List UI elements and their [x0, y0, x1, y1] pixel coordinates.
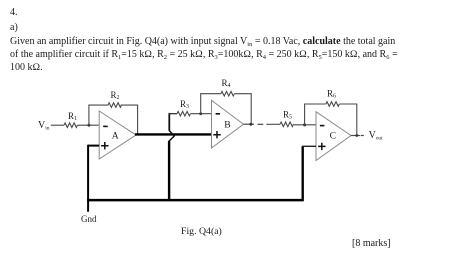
- wire B output to R5: [266, 123, 280, 125]
- resistor R2: [108, 103, 121, 108]
- junction node B output / R4 feedback: [249, 123, 252, 126]
- op-amp A plus sign: [101, 142, 108, 149]
- svg-text:R2: R2: [111, 90, 120, 101]
- wire ground left vertical (thick): [87, 145, 89, 212]
- svg-text:A: A: [112, 130, 119, 141]
- svg-text:C: C: [330, 131, 336, 142]
- wire B output dash segment: [258, 123, 264, 125]
- svg-text:R1: R1: [68, 111, 77, 122]
- op-amp C: [316, 112, 351, 161]
- resistor R4: [221, 91, 234, 96]
- wire R2 feedback right vertical to A output: [121, 105, 138, 134]
- junction node R3 / R4 feedback: [199, 112, 202, 115]
- junction node C output / R6 feedback: [355, 134, 358, 137]
- op-amp A minus sign: [103, 125, 108, 127]
- marks: [352, 238, 391, 249]
- svg-text:Gnd: Gnd: [81, 214, 97, 224]
- wire R3 corner to zigzag: [169, 113, 178, 115]
- wire R6 feedback right vertical to C output: [340, 104, 357, 136]
- wire Vin to R1: [51, 124, 64, 126]
- paragraph line 3: [10, 62, 43, 73]
- wire R6 feedback left vertical: [305, 104, 326, 125]
- wire C output: [351, 135, 360, 137]
- paragraph line 2: [10, 49, 398, 60]
- part label a): [10, 22, 18, 33]
- svg-text:B: B: [224, 120, 230, 131]
- wire R3 node vertical lower segment to ground rail (thick): [168, 141, 170, 200]
- op-amp B minus sign: [216, 113, 221, 115]
- figure caption: [181, 226, 222, 237]
- wire R4 feedback right vertical to B output: [235, 94, 252, 125]
- resistor R3: [177, 111, 190, 116]
- op-amp A: [99, 111, 136, 159]
- wire R4 feedback left vertical: [201, 94, 221, 114]
- wire to op-amp C non-inverting input: [302, 145, 316, 147]
- wire R1 to op-amp A inverting input: [78, 124, 100, 126]
- op-amp B plus sign: [213, 131, 220, 138]
- resistor R6: [326, 102, 339, 107]
- svg-text:Vout: Vout: [369, 130, 383, 141]
- wire op-amp A non-inverting input to ground branch (thick): [88, 145, 99, 147]
- resistor R1: [64, 123, 77, 128]
- junction node at R1 / R2 feedback: [88, 124, 91, 127]
- svg-text:R5: R5: [283, 110, 292, 121]
- wire B output segment: [244, 123, 255, 125]
- svg-text:R3: R3: [180, 99, 189, 110]
- wire R3 to op-amp B inverting input: [191, 113, 212, 115]
- wire R2 feedback left vertical: [89, 105, 108, 125]
- op-amp C minus sign: [320, 125, 325, 127]
- op-amp B: [212, 100, 244, 148]
- wire C output dash: [361, 135, 364, 137]
- wire crossover jog at A output crossing: [169, 131, 174, 142]
- wire R3 node vertical upper segment: [168, 113, 170, 131]
- wire A output to op-amp B non-inverting input (thick): [135, 133, 212, 135]
- wire ground rail right vertical up to C non-inverting (thick): [302, 146, 304, 201]
- svg-text:R6: R6: [327, 89, 336, 100]
- ground rail (thick): [87, 199, 303, 202]
- junction node R5 / R6 feedback: [303, 123, 306, 126]
- wire R5 to op-amp C inverting input: [294, 124, 316, 126]
- paragraph line 1: [10, 36, 395, 47]
- question number: [10, 7, 18, 18]
- svg-text:Vin: Vin: [38, 120, 50, 131]
- resistor R5: [280, 122, 293, 127]
- op-amp C plus sign: [318, 143, 325, 150]
- svg-text:R4: R4: [222, 78, 231, 89]
